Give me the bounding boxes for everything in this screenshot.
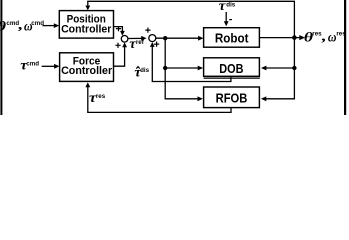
svg-text:Robot: Robot <box>215 30 249 45</box>
wire: junction 2 to Robot <box>156 37 199 39</box>
svg-text:res: res <box>336 30 346 37</box>
junction node dot (tau ref branch) <box>163 36 167 40</box>
svg-text:cmd: cmd <box>31 20 44 27</box>
junction node dot (DOB branch) <box>163 66 167 70</box>
wire: junction 1 to junction 2 (tau ref) <box>128 37 142 39</box>
svg-text:ω: ω <box>328 30 337 45</box>
plus sign (tau ref into junction 2) <box>145 28 150 33</box>
junction node dot (DOB feedback branch) <box>292 66 296 70</box>
wire: Robot output to response arrow <box>259 37 299 39</box>
plus sign (force path into junction 1) <box>115 43 120 48</box>
svg-text:DOB: DOB <box>219 61 243 76</box>
node: tau res label <box>89 91 106 105</box>
svg-text:τ: τ <box>219 0 226 14</box>
wire: DOB output (tau-hat dis) up into junction 2 <box>152 46 231 81</box>
node: theta res omega res label <box>304 28 346 44</box>
junction node dot (response branch) <box>292 35 297 40</box>
minus sign (tau dis) <box>229 19 232 21</box>
frame right border <box>344 0 346 115</box>
svg-text:ref: ref <box>136 39 145 46</box>
wire: response feedback down to DOB and RFOB right inputs <box>266 38 295 99</box>
node: tau-hat dis label <box>134 65 149 80</box>
wire: tau ref branch down to DOB and RFOB inputs <box>165 38 198 99</box>
plus sign (position path into junction 1) <box>116 26 121 31</box>
block: Force Controller <box>60 53 114 82</box>
block: Robot <box>204 28 260 48</box>
wire: command input to Force Controller <box>42 65 55 67</box>
svg-text:,: , <box>17 17 23 33</box>
svg-text:Controller: Controller <box>61 24 112 36</box>
block: Position Controller <box>59 11 113 38</box>
svg-text:res: res <box>312 30 322 37</box>
svg-text:Controller: Controller <box>61 65 113 77</box>
node: tau dis label (top disturbance) <box>219 0 236 14</box>
frame left border <box>0 0 2 115</box>
wire: response feedback up over the top into Position Controller <box>88 1 295 37</box>
svg-text:res: res <box>96 93 106 100</box>
svg-text:cmd: cmd <box>6 20 19 27</box>
wire: Force Controller output to summing junction 1 <box>114 47 125 66</box>
node: tau ref label <box>129 36 144 51</box>
summing junction 1 <box>121 36 128 43</box>
wire: tau dis arrow into Robot top <box>225 12 227 22</box>
block: DOB <box>204 58 260 78</box>
svg-text:θ: θ <box>0 19 6 34</box>
node: tau cmd label <box>20 58 39 73</box>
svg-text:RFOB: RFOB <box>216 91 248 106</box>
svg-text:cmd: cmd <box>26 60 39 67</box>
wire: branch into DOB left input <box>165 67 198 69</box>
wire: command input to Position Controller <box>43 25 55 27</box>
plus sign (disturbance comp into junction 2) <box>154 42 159 47</box>
wire: branch into DOB right input <box>266 67 295 69</box>
wire: RFOB output (tau res) around bottom up into Force Controller <box>88 87 231 112</box>
wire: Position Controller output to summing junction 1 <box>114 27 123 31</box>
block: RFOB <box>204 87 260 108</box>
node: theta cmd omega cmd label <box>0 17 44 35</box>
svg-text:,: , <box>321 28 327 44</box>
summing junction 2 <box>149 35 156 42</box>
svg-text:dis: dis <box>226 1 235 8</box>
svg-text:dis: dis <box>140 67 149 74</box>
